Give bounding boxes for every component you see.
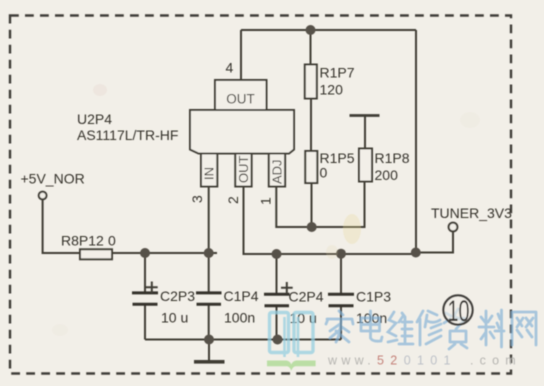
svg-text:AS1117L/TR-HF: AS1117L/TR-HF (77, 127, 178, 143)
svg-text:200: 200 (375, 167, 399, 183)
value 0 (320, 165, 328, 181)
wire pin 2 (OUT) down to output bus (244, 187, 277, 255)
scan smudges (decorative) (52, 84, 480, 336)
svg-text:120: 120 (320, 82, 344, 98)
watermark chinese characters (326, 309, 536, 349)
svg-text:OUT: OUT (226, 92, 255, 107)
svg-text:C2P3: C2P3 (160, 288, 195, 304)
resistor R8P12 (80, 249, 112, 259)
svg-text:C1P4: C1P4 (224, 288, 259, 304)
node TUNER_3V3 terminal (449, 223, 458, 232)
label U2P4 (77, 111, 112, 127)
svg-text:0101: 0101 (404, 354, 457, 368)
junction output bus / C2P4 (272, 249, 282, 259)
wire ground stub (208, 340, 210, 361)
label C2P4 (289, 289, 324, 305)
label +5V_NOR (21, 171, 85, 187)
svg-text:3: 3 (189, 195, 205, 203)
junction output bus / C1P3 (336, 249, 346, 259)
regulator U2P4 tab (215, 80, 267, 110)
label R1P7 (320, 65, 355, 81)
label AS1117L/TR-HF (77, 127, 178, 143)
pin number 1 (258, 197, 274, 205)
watermark book icon (267, 313, 316, 371)
junction ground bus / C1P4 / ground (204, 335, 214, 345)
svg-text:100n: 100n (224, 310, 255, 326)
wire right rail (415, 30, 417, 253)
capacitor C2P4 (264, 282, 293, 306)
capacitor C1P4 (196, 293, 222, 304)
watermark url www.520101.com (327, 354, 522, 368)
svg-text:2: 2 (225, 196, 241, 204)
wire C1P3 leads (340, 254, 342, 340)
svg-text:OUT: OUT (236, 156, 251, 184)
tab label OUT (226, 92, 255, 107)
pin OUT leg (235, 154, 251, 187)
value 120 (320, 82, 344, 98)
char zi (444, 309, 467, 349)
regulator U2P4 body (190, 110, 294, 154)
wire R1P7 top (310, 30, 312, 65)
wire pin 3 (IN) down to input bus (208, 187, 210, 254)
value 10u (161, 310, 188, 326)
resistor R1P7 (305, 65, 317, 99)
wire +5V_NOR to R8P12 (43, 199, 80, 253)
svg-text:R8P12: R8P12 (61, 233, 104, 249)
label C2P3 (160, 288, 195, 304)
char jia (326, 311, 353, 342)
value 100n (224, 310, 255, 326)
wire input bus R8P12 to IN pin (112, 252, 217, 254)
ground (194, 360, 225, 364)
wire C2P4 leads (276, 254, 278, 340)
pin ADJ leg (269, 154, 285, 187)
svg-text:1: 1 (258, 197, 274, 205)
char wang (512, 312, 536, 345)
svg-text:52: 52 (377, 354, 404, 368)
resistor R1P8 (359, 149, 372, 182)
svg-text:.com: .com (470, 354, 522, 368)
value 200 (375, 167, 399, 183)
char xiu (417, 311, 441, 345)
svg-text:4: 4 (226, 60, 234, 76)
resistor R1P5 (305, 151, 317, 183)
svg-text:R1P8: R1P8 (375, 150, 410, 166)
junction input bus / C2P3 (140, 248, 150, 258)
pin number 4 (226, 60, 234, 76)
label C1P4 (224, 288, 259, 304)
value 100n (356, 310, 387, 326)
wire C2P3 leads (144, 253, 146, 340)
svg-text:R1P7: R1P7 (320, 65, 355, 81)
svg-text:10: 10 (448, 295, 470, 328)
label R1P5 (320, 150, 355, 166)
svg-text:C1P3: C1P3 (356, 289, 391, 305)
label R1P8 (375, 150, 410, 166)
capacitor C2P3 (132, 282, 158, 305)
pin number 3 (189, 195, 205, 203)
wire R1P5 bottom to ADJ net (311, 183, 313, 227)
wire top bus from pin4 to right rail (241, 29, 416, 31)
label C1P3 (356, 289, 391, 305)
wire R1P7 to R1P5 (310, 99, 312, 152)
page number badge 10 (443, 295, 472, 328)
svg-text:TUNER_3V3: TUNER_3V3 (431, 205, 512, 221)
wire R1P8 top stub (364, 116, 366, 149)
wire TUNER_3V3 terminal drop (416, 232, 453, 253)
svg-text:0: 0 (320, 165, 328, 181)
wire ADJ net bus (276, 182, 364, 227)
svg-text:www.: www. (327, 354, 375, 368)
junction input bus / C1P4 / pin3 (204, 248, 214, 258)
wire ground bus (145, 339, 341, 341)
char wei (388, 312, 413, 344)
junction output bus / right rail (411, 248, 421, 258)
node +5V_NOR terminal (39, 192, 47, 200)
svg-text:0: 0 (108, 233, 116, 249)
label TUNER_3V3 (431, 205, 512, 221)
value 10u (290, 310, 317, 326)
terminal bar above R1P8 (350, 114, 380, 117)
pin IN leg (201, 154, 217, 187)
pin number 2 (225, 196, 241, 204)
svg-text:U2P4: U2P4 (77, 111, 112, 127)
junction ground bus / C2P4 (273, 335, 283, 345)
wire pin 4 to top bus (240, 30, 242, 80)
svg-text:+5V_NOR: +5V_NOR (21, 171, 85, 187)
char liao (479, 310, 504, 347)
junction ADJ net / R1P5 (307, 222, 317, 232)
label R8P12 value 0 (61, 233, 116, 249)
svg-text:IN: IN (202, 167, 217, 180)
wire C1P4 leads (208, 253, 210, 340)
char dian (361, 311, 382, 341)
capacitor C1P3 (328, 294, 354, 305)
svg-text:10 u: 10 u (161, 310, 188, 326)
wire output bus (277, 253, 417, 255)
svg-text:C2P4: C2P4 (289, 289, 324, 305)
junction top bus / R1P7 (306, 25, 316, 35)
svg-text:ADJ: ADJ (270, 159, 285, 184)
